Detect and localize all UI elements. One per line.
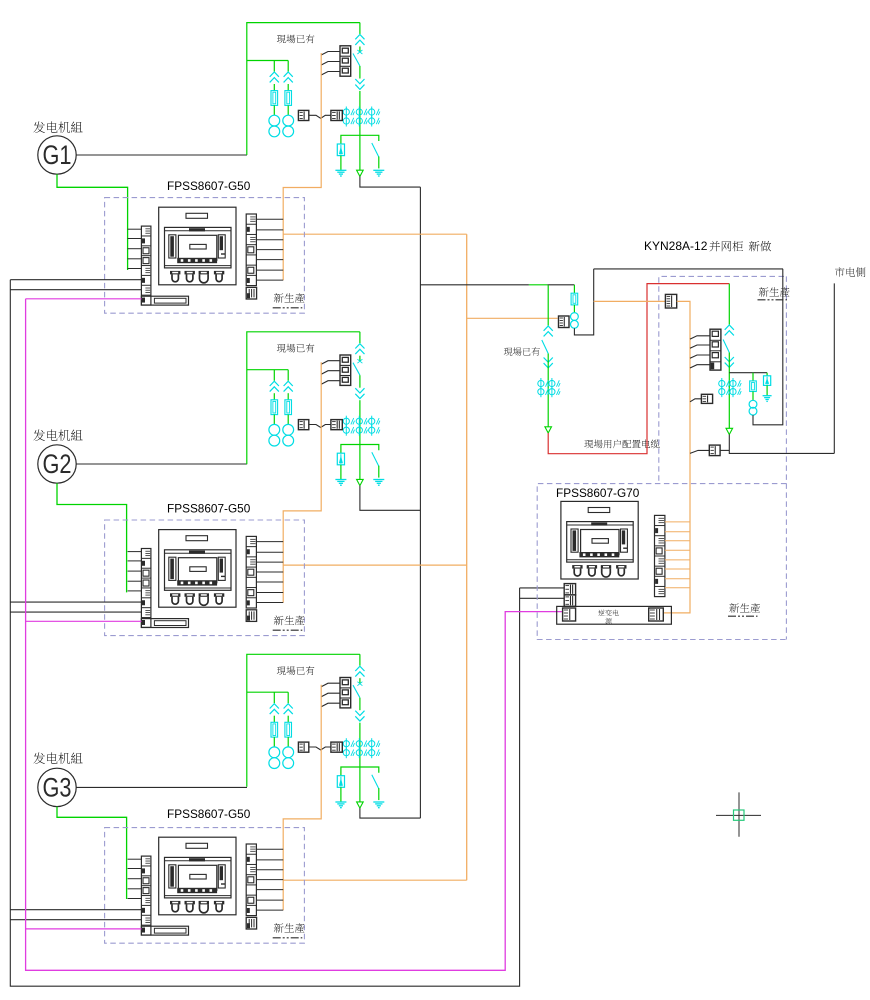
fuse F2 — [750, 381, 757, 392]
wire PT leg A S2 — [273, 370, 275, 381]
wire fuse leg2 bottom — [753, 269, 783, 425]
switch cross mark S3 — [357, 682, 362, 686]
wire PT A stem S3 — [273, 737, 275, 747]
wire DC rail black — [10, 280, 519, 987]
CT S1 — [356, 109, 362, 115]
wire panel lead 2 — [128, 580, 142, 582]
wire main leg mid S3 — [359, 698, 361, 711]
surge arrester cabinet — [764, 376, 771, 386]
CT S3 — [356, 741, 362, 747]
wire right lead 1 — [256, 279, 283, 281]
terminal strip right X1B — [246, 214, 256, 286]
wire right lead 2 — [256, 602, 283, 604]
CT S2 — [343, 418, 349, 424]
generator G3 circle — [38, 768, 76, 806]
generator G2 circle — [38, 445, 76, 483]
terminal box right S2 — [331, 420, 342, 430]
wire right lead 1 — [256, 218, 283, 220]
wire cluster S3 to bus — [360, 808, 421, 818]
wire right lead 3 — [256, 889, 283, 891]
fuse PT A S3 — [271, 722, 278, 737]
terminal box right S1 — [331, 110, 342, 120]
terminal cell G70 a — [564, 584, 575, 595]
wire cluster top bus S2 — [247, 332, 360, 464]
terminal strip G70 — [655, 515, 665, 596]
switch cross mark S2 — [357, 359, 362, 363]
CT S1 — [356, 118, 362, 124]
wire measure branch — [729, 372, 767, 374]
wire right lead 3 — [256, 909, 283, 911]
wire main leg mid S1 — [359, 66, 361, 79]
wire arrester stem S1 — [340, 156, 342, 171]
wire main leg lower S2 — [359, 400, 361, 479]
PT winding bottom A S3 — [269, 758, 280, 769]
wire control cable S1 orange — [283, 53, 321, 280]
wire arrester stem S3 — [340, 787, 342, 802]
arrow chevrons PT B S3 — [284, 704, 293, 709]
arrow chevrons down incomer — [544, 358, 553, 363]
terminal strip left X1A — [141, 226, 151, 305]
ground arrester cabinet — [763, 395, 772, 397]
wire G70 lead orange — [665, 531, 690, 533]
wire G70 lead orange — [665, 521, 690, 523]
wire terminal link S1 — [309, 115, 331, 118]
ground arrester S1 — [335, 169, 346, 171]
CT S2 — [369, 418, 375, 424]
label 发电机组 2 — [33, 429, 82, 441]
bottom module 1 — [141, 296, 188, 305]
ground earth switch S1 — [373, 169, 384, 171]
wire T4 to main — [720, 449, 729, 451]
wire magenta stub S1 — [26, 298, 142, 300]
wire PT A S3 — [273, 716, 275, 723]
wire breaker lead S1 — [321, 62, 340, 66]
PT winding top B S1 — [283, 115, 294, 126]
wire main leg upper S2 — [359, 332, 361, 343]
arrow chevrons down main S3 — [355, 711, 364, 716]
wire breaker lead cabinet — [690, 336, 710, 339]
wire orange trunk vertical — [466, 234, 468, 880]
circuit breaker S3 — [340, 678, 351, 708]
bottom module 2 — [141, 619, 188, 628]
svg-text:FPSS8607-G50: FPSS8607-G50 — [167, 501, 251, 515]
wire panel lead 3 — [128, 878, 142, 880]
PT winding bottom B S1 — [283, 126, 294, 137]
wire incomer lower — [547, 354, 549, 427]
wire fuse stem — [573, 305, 575, 313]
fuse PT B S1 — [285, 91, 292, 106]
terminal block small 3 — [246, 917, 256, 929]
G50 control box 2 — [105, 501, 305, 635]
earth switch blade S3 — [372, 775, 379, 789]
PT winding bottom A S1 — [269, 126, 280, 137]
PT winding top B S2 — [283, 424, 294, 435]
wire terminal link S3 — [309, 747, 331, 750]
G50 box 1 dashed outline — [105, 198, 305, 314]
PT winding bottom F2 — [749, 407, 757, 415]
wire orange cabinet — [663, 301, 690, 613]
CT S3 — [356, 750, 362, 756]
wire PT A stem S1 — [273, 105, 275, 115]
ground arrester S3 — [335, 801, 346, 803]
wire PT B S3 — [287, 716, 289, 723]
wire cluster top bus S1 — [247, 23, 360, 155]
wire control cable S3 orange — [283, 685, 321, 911]
inverter terminal right — [649, 608, 664, 621]
wire magenta stub S3 — [26, 928, 142, 930]
svg-text:G2: G2 — [43, 449, 72, 479]
CT incomer c — [549, 380, 555, 386]
switch blade cabinet — [723, 340, 729, 353]
wire fuse leg2 stub — [752, 373, 754, 381]
terminal cell G70 b — [564, 595, 575, 606]
wire breaker lead S2 — [321, 361, 340, 365]
terminal box left S1 — [298, 110, 308, 120]
ground arrester S2 — [335, 479, 346, 481]
wire generator common bus vertical — [419, 187, 421, 818]
wire rail stub S2b — [10, 611, 141, 613]
wire arrester2 stub — [766, 373, 768, 376]
G70 box dashed outline — [537, 484, 786, 640]
wire fuse leg top — [573, 285, 575, 293]
wire G2 output — [76, 463, 247, 465]
controller panel U2 — [159, 530, 236, 608]
wire right lead 3 — [256, 879, 283, 881]
wire gen bus to cabinet — [420, 284, 529, 286]
wire G70 lead orange — [665, 568, 690, 570]
wire arrester stem S2 — [340, 465, 342, 480]
existing-site cluster section 2 — [247, 332, 384, 486]
wire cabinet top bus — [594, 268, 783, 270]
wire panel lead 1 — [128, 228, 142, 230]
wire main leg S2 — [359, 356, 361, 361]
CT S1 — [343, 118, 349, 124]
terminal box T1 — [559, 316, 570, 328]
terminal strip left X3A — [141, 856, 151, 935]
arrow chevrons up cabinet — [725, 325, 734, 330]
wire breaker lead S2 — [321, 381, 340, 385]
wire breaker lead cabinet — [690, 345, 710, 348]
wire generator G2 green feed — [57, 483, 127, 592]
wire control branch S2 orange — [283, 564, 467, 566]
arrow main outgoing S1 — [357, 170, 364, 176]
disconnect switch blade S2 — [353, 363, 360, 376]
wire breaker lead S3 — [321, 703, 340, 707]
wire main leg lower S3 — [359, 723, 361, 802]
label 现场已有 S3 — [277, 666, 315, 675]
wire panel lead 2 — [128, 560, 142, 562]
wire panel lead 1 — [128, 268, 142, 270]
PT winding top F2 — [749, 400, 757, 408]
wire cluster sub bus S2 — [247, 369, 288, 371]
wire panel lead 2 — [128, 551, 142, 553]
arrow chevrons PT A S3 — [270, 704, 279, 709]
fuse PT B S2 — [285, 400, 292, 415]
wire rail to G70 terminal a — [520, 587, 565, 589]
CT incomer d — [549, 389, 555, 395]
wire rail stub S3a — [10, 909, 141, 911]
CT cabinet a — [719, 380, 725, 386]
wire fuse2 stem — [752, 392, 754, 401]
PT winding bottom F1 — [571, 320, 579, 328]
G50 box 2 dashed outline — [105, 520, 305, 636]
earth switch blade S1 — [372, 143, 379, 157]
wire PT leg B S2 — [287, 370, 289, 381]
wire terminal link S2 — [309, 425, 331, 428]
surge arrester S2 — [337, 453, 344, 465]
CT S2 — [356, 427, 362, 433]
terminal block small 1 — [246, 287, 256, 299]
wire G70 lead orange — [665, 578, 690, 580]
terminal block small 2 — [246, 610, 256, 622]
controller panel U3 — [159, 837, 236, 915]
svg-text:FPSS8607-G50: FPSS8607-G50 — [167, 179, 251, 193]
wire incomer upper — [547, 285, 549, 326]
wire cluster top bus S3 — [247, 654, 360, 786]
CT S3 — [343, 741, 349, 747]
wire right lead 2 — [256, 571, 283, 573]
wire earth switch stem S1 — [378, 157, 380, 169]
wire cluster sub bus S1 — [247, 60, 288, 62]
PT winding bottom A S2 — [269, 435, 280, 446]
PT winding top A S2 — [269, 424, 280, 435]
wire right lead 3 — [256, 899, 283, 901]
label 发电机组 3 — [33, 752, 82, 764]
wire G3 output — [76, 786, 247, 788]
PT winding bottom B S3 — [283, 758, 294, 769]
CT S2 — [356, 418, 362, 424]
label 逆变电 inverter — [598, 610, 618, 616]
arrow chevrons PT B S1 — [284, 72, 293, 77]
svg-text:G1: G1 — [43, 140, 72, 170]
wire control branch S1 orange — [283, 233, 467, 235]
label 并网柜 — [710, 241, 743, 252]
arrow cabinet outgoing — [726, 428, 733, 434]
wire ground branch S2 — [341, 445, 379, 454]
wire right lead 2 — [256, 561, 283, 563]
wire PT B stem S2 — [287, 415, 289, 425]
wire PT leg B S1 — [287, 61, 289, 72]
wire main leg S3 — [359, 678, 361, 683]
wire ground branch S3 — [341, 767, 379, 776]
arrow chevrons up main S3 — [355, 666, 364, 671]
wire main leg upper S3 — [359, 654, 361, 665]
G50 box 3 dashed outline — [105, 828, 305, 944]
wire PT B stem S3 — [287, 737, 289, 747]
wire PT B S1 — [287, 84, 289, 91]
wire G70 lead orange — [665, 587, 690, 589]
wire main leg mid S2 — [359, 375, 361, 388]
wire rail to G70 terminal b — [520, 597, 565, 599]
surge arrester S1 — [337, 144, 344, 156]
label 发电机组 1 — [33, 121, 82, 133]
underline box 1 — [273, 307, 303, 309]
CT S1 — [343, 109, 349, 115]
label 源 inverter — [605, 618, 611, 624]
arrow chevrons up main S2 — [355, 344, 364, 349]
label 新生产 KYN — [759, 287, 790, 297]
circuit breaker S1 — [340, 46, 351, 76]
ground earth switch S2 — [373, 479, 384, 481]
wire breaker lead cabinet — [690, 365, 710, 368]
fuse F1 — [571, 293, 578, 305]
wire PT leg A S3 — [273, 692, 275, 703]
wire user cable red — [548, 284, 729, 454]
crosshair marker — [716, 792, 761, 836]
wire PT B stem S1 — [287, 105, 289, 115]
PT winding top B S3 — [283, 747, 294, 758]
wire PT A stem S2 — [273, 415, 275, 425]
wire panel lead 2 — [128, 570, 142, 572]
label 市电侧 — [835, 267, 865, 277]
label 现场用户配置电缆 — [584, 439, 659, 448]
wire cluster sub bus S3 — [247, 691, 288, 693]
switch blade incomer — [542, 340, 548, 354]
wire PT A S1 — [273, 84, 275, 91]
wire green link — [529, 284, 547, 286]
CT S1 — [369, 109, 375, 115]
terminal strip left X2A — [141, 549, 151, 628]
terminal box T3 — [701, 394, 712, 403]
label 新做 — [749, 241, 771, 252]
wire cluster S2 to bus — [360, 486, 421, 511]
CT S3 — [369, 741, 375, 747]
label 新生产 G70 — [729, 603, 760, 613]
arrow chevrons PT B S2 — [284, 381, 293, 386]
CT incomer b — [538, 389, 544, 395]
wire generator G1 green feed — [57, 174, 128, 270]
terminal box T4 — [709, 445, 720, 456]
label 现场已有 S1 — [277, 34, 315, 43]
CT incomer a — [538, 380, 544, 386]
wire magenta rail — [26, 299, 563, 971]
terminal box left S2 — [298, 420, 308, 430]
wire breaker lead cabinet — [690, 355, 710, 358]
inverter box — [557, 606, 672, 624]
svg-text:FPSS8607-G70: FPSS8607-G70 — [556, 486, 640, 500]
arrow chevrons up incomer — [544, 326, 553, 331]
KYN cabinet dashed outline — [659, 276, 787, 480]
label 新生产 box 3 — [274, 923, 305, 933]
underline box 2 — [273, 629, 303, 631]
circuit breaker QF cabinet — [710, 329, 721, 370]
wire G70 lead orange — [665, 549, 690, 551]
arrow chevrons down main S1 — [355, 79, 364, 84]
wire T3 lead — [690, 399, 701, 402]
wire rail stub S2a — [10, 601, 141, 603]
inverter terminal left — [563, 608, 576, 621]
underline box 3 — [273, 937, 303, 939]
wire orange branch to cabinet — [467, 317, 558, 319]
wire cabinet leg lower — [728, 353, 730, 429]
existing-site cluster section 3 — [247, 654, 384, 808]
wire control branch S3 orange — [283, 879, 467, 881]
wire right lead 2 — [256, 592, 283, 594]
wire rail stub S1b — [10, 289, 141, 291]
wire right lead 2 — [256, 541, 283, 543]
wire panel lead 3 — [128, 898, 142, 900]
label 新生产 box 2 — [274, 616, 305, 626]
wire right lead 1 — [256, 259, 283, 261]
wire panel lead 1 — [128, 258, 142, 260]
arrow chevrons down main S2 — [355, 388, 364, 393]
wire panel lead 1 — [128, 248, 142, 250]
underline G70 — [728, 615, 758, 617]
CT cabinet b — [719, 389, 725, 395]
CT cabinet c — [730, 380, 736, 386]
earth switch blade S2 — [372, 452, 379, 466]
label 现场已有 S2 — [277, 344, 315, 353]
wire right lead 3 — [256, 859, 283, 861]
ground earth switch S3 — [373, 801, 384, 803]
wire rail stub S3b — [10, 919, 141, 921]
svg-text:FPSS8607-G50: FPSS8607-G50 — [167, 807, 251, 821]
CT S3 — [343, 750, 349, 756]
disconnect switch blade S3 — [353, 685, 360, 698]
controller panel U4 G70 — [561, 501, 638, 579]
wire fuse leg bottom — [574, 269, 593, 335]
fuse PT B S3 — [285, 722, 292, 737]
controller panel U1 — [159, 207, 236, 285]
arrow incomer outgoing — [545, 427, 552, 433]
wire orange cabinet feed — [594, 300, 666, 302]
wire generator G3 green feed — [57, 807, 127, 899]
terminal strip right X2B — [246, 536, 256, 608]
circuit breaker S2 — [340, 355, 351, 385]
fuse PT A S2 — [271, 400, 278, 415]
svg-text:G3: G3 — [43, 772, 72, 802]
arrow main outgoing S2 — [357, 479, 364, 485]
existing-site cluster section 1 — [247, 23, 384, 177]
wire panel lead 3 — [128, 868, 142, 870]
arrow main outgoing S3 — [357, 802, 364, 808]
wire breaker lead S1 — [321, 72, 340, 76]
svg-text:KYN28A-12: KYN28A-12 — [644, 239, 708, 253]
PT winding bottom B S2 — [283, 435, 294, 446]
arrow chevrons PT A S1 — [270, 72, 279, 77]
wire G70 lead orange — [665, 559, 690, 561]
label 新生产 box 1 — [274, 293, 305, 303]
wire right lead 1 — [256, 269, 283, 271]
wire earth switch stem S3 — [378, 788, 380, 800]
CT S3 — [369, 750, 375, 756]
wire breaker lead S2 — [321, 371, 340, 375]
wire T4 lead — [690, 450, 709, 453]
wire panel lead 2 — [128, 590, 142, 592]
wire cluster S1 to bus — [360, 176, 421, 187]
generator G1 circle — [38, 136, 76, 174]
wire rail stub S1a — [10, 279, 141, 281]
wire right lead 1 — [256, 239, 283, 241]
CT cabinet d — [730, 389, 736, 395]
arrow chevrons down cabinet — [725, 357, 734, 362]
wire G1 output — [76, 154, 247, 156]
CT S1 — [369, 118, 375, 124]
wire panel lead 3 — [128, 888, 142, 890]
wire main leg S1 — [359, 47, 361, 52]
wire breaker lead S3 — [321, 683, 340, 687]
switch cross mark S1 — [357, 50, 362, 54]
CT S2 — [369, 427, 375, 433]
bottom module 3 — [141, 926, 188, 935]
wire PT leg B S3 — [287, 692, 289, 703]
KYN cabinet dashed right edge — [785, 276, 787, 639]
wire arrester2 stem — [766, 385, 768, 395]
wire right lead 3 — [256, 848, 283, 850]
arrow chevrons up main S1 — [355, 35, 364, 40]
PT winding top A S1 — [269, 115, 280, 126]
wire right lead 2 — [256, 581, 283, 583]
